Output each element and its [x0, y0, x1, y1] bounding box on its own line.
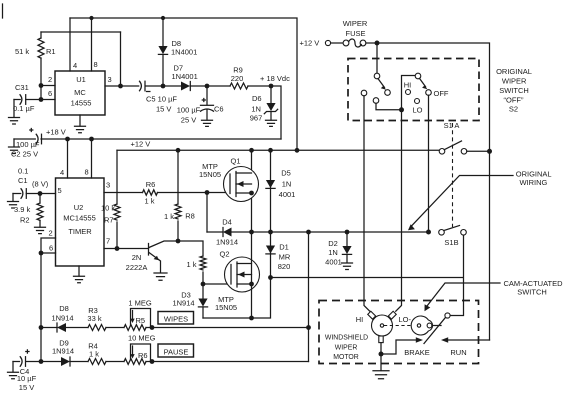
svg-text:4: 4 — [73, 61, 77, 70]
node R6 wiper — [150, 359, 155, 364]
zener D6 — [250, 86, 278, 123]
node pin2 — [39, 83, 44, 88]
wire U2 pin7 — [104, 248, 149, 250]
resistor R4 1k — [88, 342, 124, 365]
svg-text:15 V: 15 V — [19, 383, 34, 392]
wire S2 pole feed — [376, 43, 378, 73]
svg-text:ORIGINAL: ORIGINAL — [496, 67, 532, 76]
wire Q2 column — [251, 232, 253, 318]
wire motor-cam dashed link — [384, 325, 411, 327]
wire U2 pin6 — [41, 252, 56, 254]
timer U2 MC14555 box — [56, 178, 105, 266]
wire U1 pin4 feed — [69, 18, 71, 71]
wire gate to Q2 — [203, 283, 231, 285]
svg-text:R6: R6 — [138, 351, 148, 360]
svg-text:LO-: LO- — [399, 315, 412, 324]
svg-text:D5: D5 — [281, 169, 291, 178]
svg-text:R1: R1 — [46, 47, 56, 56]
wire U2 pin3 output — [104, 192, 143, 194]
wire S1B row — [252, 231, 429, 233]
transistor Q1 MTP15N05 — [199, 157, 259, 202]
wire sense column — [308, 232, 310, 362]
ground U1 — [75, 126, 86, 133]
node R8 top — [176, 148, 181, 153]
svg-text:1N914: 1N914 — [172, 299, 194, 308]
label box WIPES — [158, 312, 194, 325]
node D1 bottom — [268, 275, 273, 280]
wire U1 pin3 output — [105, 85, 139, 87]
resistor R3 33k — [87, 306, 124, 331]
resistor R7 10k — [101, 204, 120, 249]
svg-text:WINDSHIELD: WINDSHIELD — [325, 335, 368, 342]
wire C4 ground drop — [12, 362, 14, 373]
svg-text:1 MEG: 1 MEG — [128, 298, 152, 307]
switch S1A — [439, 121, 489, 154]
wire run contact — [448, 339, 490, 341]
ground R2 — [35, 227, 46, 233]
wire R1 column top — [40, 32, 42, 38]
ground C2 — [9, 147, 20, 154]
node U2 pin4 supply — [65, 137, 70, 142]
svg-text:SWITCH: SWITCH — [517, 288, 547, 297]
contact follower — [445, 313, 450, 318]
net +12 V rail — [117, 149, 439, 151]
svg-text:4001: 4001 — [325, 258, 342, 267]
node D8 bottom — [161, 84, 166, 89]
svg-text:8: 8 — [85, 168, 89, 177]
svg-text:U1: U1 — [76, 75, 86, 84]
contact S2 HI-col — [361, 90, 367, 96]
ground C6 — [202, 120, 213, 126]
svg-text:967: 967 — [250, 114, 263, 123]
node D5 bottom — [268, 230, 273, 235]
svg-text:10 k: 10 k — [101, 204, 115, 213]
capacitor C2 — [11, 129, 42, 159]
svg-text:25 V: 25 V — [181, 116, 196, 125]
cam disc — [411, 316, 441, 335]
wire D7 to R9 — [190, 85, 230, 87]
svg-text:Q2: Q2 — [219, 250, 229, 259]
callout CAM-ACTUATED SWITCH — [425, 279, 564, 311]
svg-text:0.1 µF: 0.1 µF — [13, 104, 35, 113]
wire LO column down — [396, 110, 402, 311]
label box PAUSE — [158, 344, 194, 357]
ground C1 — [8, 202, 19, 209]
wire +12 rail corner to R7 — [116, 150, 118, 204]
transistor Q3 2N2222A — [126, 241, 178, 273]
wire U1 ground stub — [79, 115, 81, 126]
resistor R1 — [38, 38, 44, 58]
contact S2 left throw — [385, 90, 391, 96]
svg-text:D8: D8 — [59, 304, 69, 313]
svg-text:HI: HI — [356, 315, 364, 324]
svg-text:MR: MR — [279, 253, 291, 262]
lever S2 right — [420, 78, 426, 86]
svg-text:2N: 2N — [132, 253, 142, 262]
wire R6 to Q1 gate — [158, 192, 231, 194]
wire U1 pin2 — [41, 85, 55, 87]
svg-text:220: 220 — [231, 74, 244, 83]
svg-text:15 V: 15 V — [156, 105, 171, 114]
diode D8 — [158, 18, 197, 86]
svg-text:51 k: 51 k — [15, 47, 29, 56]
svg-text:15N05: 15N05 — [215, 303, 237, 312]
wire R1 top link — [41, 31, 121, 33]
svg-text:100 µF: 100 µF — [16, 140, 40, 149]
svg-text:6: 6 — [49, 244, 53, 253]
wire Q1 gate drop — [206, 193, 208, 233]
svg-text:TIMER: TIMER — [68, 227, 92, 236]
svg-text:1N: 1N — [251, 104, 261, 113]
svg-text:C5 10 µF: C5 10 µF — [146, 95, 177, 104]
svg-text:14555: 14555 — [71, 99, 92, 108]
svg-text:U2: U2 — [74, 203, 84, 212]
svg-text:+12 V: +12 V — [300, 39, 320, 48]
node +12V feed from top — [295, 148, 300, 153]
svg-text:D2: D2 — [328, 239, 338, 248]
svg-text:BRAKE: BRAKE — [404, 348, 429, 357]
diode D4 — [207, 218, 252, 247]
svg-text:(8 V): (8 V) — [32, 180, 49, 189]
wire pin2-pin6 link — [40, 86, 42, 100]
diode D5 — [266, 150, 295, 232]
wire U2 pin2 — [41, 238, 56, 253]
svg-text:15N05: 15N05 — [199, 170, 221, 179]
wire LO link — [376, 103, 402, 110]
ground C4 — [8, 372, 19, 379]
wire S2 right pole — [402, 76, 416, 110]
svg-text:R6: R6 — [146, 180, 156, 189]
node pin6 — [39, 97, 44, 102]
svg-text:MOTOR: MOTOR — [333, 354, 359, 361]
svg-text:C6: C6 — [214, 105, 224, 114]
wire U1 pin6 — [41, 99, 55, 101]
arrow run — [441, 337, 448, 343]
svg-text:+ 18 Vdc: + 18 Vdc — [260, 74, 290, 83]
svg-text:R5: R5 — [136, 316, 146, 325]
svg-text:WIPES: WIPES — [164, 315, 188, 324]
svg-text:D4: D4 — [222, 218, 232, 227]
contact S2 HI position — [406, 90, 411, 95]
svg-text:820: 820 — [278, 262, 291, 271]
svg-text:5: 5 — [58, 186, 62, 195]
contact S2 right pole — [415, 73, 421, 79]
wire Q2 source row — [203, 278, 271, 319]
scan artifact top-left — [2, 4, 4, 18]
contact S2 LO position — [415, 99, 420, 104]
linkage S1 dashed — [452, 123, 454, 227]
node S1A right bus — [487, 149, 492, 154]
svg-text:R7: R7 — [104, 216, 114, 225]
terminal +12 V source — [300, 39, 344, 48]
node sense top — [306, 230, 311, 235]
svg-text:C31: C31 — [15, 83, 29, 92]
wire HI column — [364, 96, 370, 311]
svg-text:FUSE: FUSE — [345, 29, 365, 38]
node brake tap — [379, 352, 384, 357]
node sense wipes — [306, 325, 311, 330]
svg-text:Q1: Q1 — [230, 157, 240, 166]
diode D3 — [172, 284, 207, 318]
svg-text:WIPER: WIPER — [343, 19, 368, 28]
svg-text:4001: 4001 — [279, 190, 296, 199]
svg-text:PAUSE: PAUSE — [164, 347, 189, 356]
wire pin3 riser — [120, 32, 122, 86]
diode D1 — [266, 232, 291, 278]
capacitor C6 — [177, 86, 224, 125]
wire C1 ground drop — [12, 194, 14, 202]
svg-text:S1 A: S1 A — [444, 121, 460, 130]
svg-text:“OFF”: “OFF” — [504, 96, 524, 105]
node D4-Q1 source — [249, 230, 254, 235]
resistor R8 1k — [164, 150, 195, 241]
svg-text:RUN: RUN — [450, 348, 466, 357]
net +18 V rail — [14, 138, 35, 140]
svg-text:10 µF: 10 µF — [17, 374, 37, 383]
node pause bus — [39, 359, 44, 364]
node wipes bus — [39, 325, 44, 330]
svg-text:1 k: 1 k — [144, 197, 154, 206]
svg-text:1 k: 1 k — [186, 260, 196, 269]
svg-text:1N4001: 1N4001 — [171, 47, 197, 56]
svg-text:2222A: 2222A — [126, 263, 148, 272]
svg-text:+12 V: +12 V — [131, 140, 151, 149]
diode D2 — [325, 232, 351, 267]
switch box S2 dashed — [348, 59, 479, 121]
svg-text:3: 3 — [108, 75, 112, 84]
contact S2 LO-col — [373, 98, 379, 104]
wire pause row right — [152, 361, 309, 363]
svg-text:LO: LO — [412, 106, 422, 115]
ground D2 — [342, 263, 353, 270]
svg-text:1N914: 1N914 — [216, 238, 238, 247]
svg-text:MC: MC — [74, 88, 86, 97]
label S2 block — [496, 67, 532, 114]
node Q1 drain rail — [249, 148, 254, 153]
svg-text:10 MEG: 10 MEG — [128, 334, 156, 343]
node pin8 rail junction — [89, 16, 93, 20]
node pin5 — [38, 191, 43, 196]
node pin3-C5 — [118, 84, 123, 89]
svg-text:2: 2 — [49, 229, 53, 238]
svg-text:MC14555: MC14555 — [63, 214, 96, 223]
ground U2 — [74, 276, 85, 283]
node Q1 gate — [205, 190, 210, 195]
node C6 top — [205, 84, 210, 89]
svg-text:HI: HI — [404, 81, 412, 90]
wire wipes row left — [41, 327, 57, 329]
svg-text:3.9 k: 3.9 k — [14, 205, 31, 214]
svg-text:1 k: 1 k — [89, 350, 99, 359]
svg-text:6: 6 — [48, 89, 52, 98]
transistor Q2 MTP15N05 — [215, 250, 260, 313]
resistor R2 — [14, 194, 43, 228]
svg-text:100 µF: 100 µF — [177, 106, 201, 115]
switch S1B — [439, 226, 467, 248]
resistor R6 1k — [143, 180, 158, 206]
wire top-left rail — [70, 18, 297, 150]
svg-text:WIPER: WIPER — [502, 76, 527, 85]
wire follower row — [271, 277, 463, 279]
diode D9 1N914 — [41, 338, 88, 366]
wire timing bus down — [40, 253, 42, 362]
wire C5 to D7 — [145, 85, 180, 87]
wire motor ground — [380, 343, 382, 371]
ground C3 — [9, 118, 20, 125]
svg-text:3: 3 — [106, 181, 110, 190]
svg-text:1N914: 1N914 — [52, 347, 74, 356]
capacitor C3 — [13, 83, 41, 113]
node Q2 source bottom — [249, 316, 254, 321]
svg-text:2: 2 — [48, 75, 52, 84]
svg-text:1N: 1N — [282, 180, 292, 189]
wire fuse to top right corner — [366, 43, 490, 340]
svg-text:4: 4 — [60, 168, 64, 177]
svg-text:D1: D1 — [279, 243, 289, 252]
arrow brake — [416, 337, 423, 343]
svg-text:SWITCH: SWITCH — [499, 86, 529, 95]
contact S2 OFF — [426, 90, 432, 96]
node fuse junction — [375, 41, 380, 46]
follower lever — [424, 317, 446, 343]
node pin6 junction — [39, 251, 44, 256]
wire U1 pin8 feed — [91, 18, 93, 71]
fuse wiper fuse — [343, 19, 368, 47]
motor windshield wiper motor — [325, 311, 412, 361]
resistor 1 k Q2 gate — [186, 256, 206, 284]
svg-text:1 k: 1 k — [164, 212, 174, 221]
op-amp U1 MC14555 box — [55, 71, 105, 115]
wire R1 bottom — [40, 58, 42, 86]
node Q2 gate — [201, 282, 206, 287]
svg-text:7: 7 — [106, 237, 110, 246]
svg-text:C1: C1 — [18, 176, 28, 185]
wire brake contact — [381, 340, 416, 354]
wire collector to gate resistor — [178, 241, 203, 256]
node D5 rail — [268, 148, 273, 153]
node LO junction — [399, 107, 404, 112]
wire S1B to follower — [450, 235, 464, 315]
box motor dashed — [319, 301, 479, 364]
capacitor C4 — [13, 350, 41, 392]
wire U2 ground stub — [78, 266, 80, 276]
node +18Vdc — [269, 84, 274, 89]
svg-text:R8: R8 — [185, 212, 195, 221]
svg-text:8: 8 — [94, 60, 98, 69]
svg-text:0.1: 0.1 — [18, 167, 28, 176]
contact S2 common top — [374, 73, 380, 79]
svg-text:D6: D6 — [252, 94, 262, 103]
resistor R9 — [230, 66, 248, 90]
svg-text:S1B: S1B — [444, 238, 458, 247]
wire U2 pin8 feed — [91, 139, 93, 178]
svg-text:1N: 1N — [328, 248, 338, 257]
potentiometer R6 10 MEG — [124, 334, 156, 365]
wire R9 to +18Vdc node — [248, 86, 281, 139]
svg-text:WIPER: WIPER — [335, 345, 358, 352]
wire Q1 drain column — [251, 150, 253, 232]
svg-text:1N914: 1N914 — [51, 314, 73, 323]
node U2 pin8 supply — [89, 137, 94, 142]
svg-text:S2: S2 — [509, 105, 518, 114]
svg-text:1N4001: 1N4001 — [172, 72, 198, 81]
diode D8b 1N914 — [51, 304, 88, 332]
capacitor C5 — [140, 81, 178, 113]
lever S2 left — [378, 79, 385, 88]
wire C2 ground drop — [13, 139, 15, 147]
wire OFF column — [428, 95, 430, 232]
node pin7-R7 — [115, 246, 120, 251]
svg-text:OFF: OFF — [434, 89, 449, 98]
svg-text:WIRING: WIRING — [519, 178, 547, 187]
capacitor C1 — [13, 167, 56, 199]
diode D7 — [172, 64, 198, 91]
node Q3 collector — [176, 239, 181, 244]
wire C3 ground drop — [13, 100, 15, 118]
node S1B left — [426, 230, 431, 235]
ground Q3 emitter — [154, 273, 167, 280]
node D8 rail junction — [161, 16, 165, 20]
ground D6 — [266, 120, 277, 126]
svg-text:R2: R2 — [20, 216, 30, 225]
wire U2 pin4 feed — [67, 139, 69, 178]
svg-text:33 k: 33 k — [87, 314, 101, 323]
node D2 top — [345, 230, 350, 235]
svg-text:+18 V: +18 V — [46, 128, 66, 137]
wire wipes row right — [152, 327, 309, 329]
ground motor — [373, 371, 389, 379]
potentiometer R5 1 MEG — [124, 298, 153, 330]
callout ORIGINAL WIRING — [408, 170, 552, 231]
node R5 wiper — [150, 325, 155, 330]
